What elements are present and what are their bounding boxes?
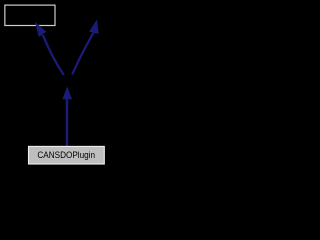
wire: inheritance edge to top-right (clipped parent) (72, 32, 94, 74)
node: empty parent class box (top-left) (5, 5, 55, 25)
svg-text:CANSDOPlugin: CANSDOPlugin (37, 149, 95, 160)
wire: vertical edge from CANSDOPlugin node (66, 99, 69, 147)
arrowhead on edge to top-left box (36, 24, 45, 36)
arrowhead on vertical edge (63, 88, 71, 98)
node CANSDOPlugin (current class) (29, 146, 105, 164)
wire: inheritance edge to top-left box (43, 35, 64, 75)
arrowhead on edge to top-right (90, 21, 98, 33)
